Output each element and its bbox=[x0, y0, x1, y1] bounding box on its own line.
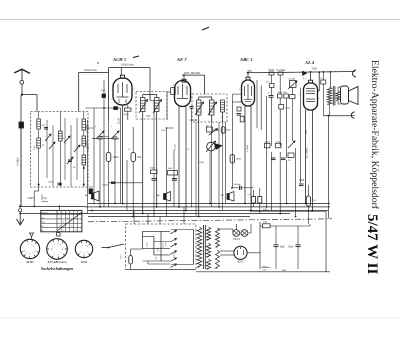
wire bbox=[218, 122, 220, 207]
svg-text:2kΩ: 2kΩ bbox=[263, 221, 267, 224]
variable capacitor gang 2 bbox=[111, 131, 119, 139]
resistor AF7 grid left bbox=[171, 88, 176, 95]
wire antenna down bbox=[21, 84, 23, 94]
wire ABC1 pins down bbox=[244, 106, 246, 204]
potentiometer 0,1M upper bbox=[290, 81, 297, 88]
svg-text:100pF: 100pF bbox=[102, 184, 109, 187]
tube ABC1 bbox=[242, 80, 255, 106]
scan artifact line bottom bbox=[0, 317, 400, 319]
tube AF7 grid cap bbox=[182, 79, 186, 82]
resistor ACH1 cathode bbox=[125, 108, 132, 111]
output transformer core bbox=[332, 86, 334, 106]
svg-text:5000: 5000 bbox=[88, 186, 94, 189]
switch arrow above pot bbox=[209, 129, 218, 136]
trimmer arrow T2a bbox=[195, 102, 204, 115]
transformer secondary winding 5 bbox=[216, 250, 220, 268]
svg-text:ACH1: ACH1 bbox=[25, 260, 34, 264]
wire trimmer base line bbox=[92, 138, 119, 140]
svg-text:0,1μF: 0,1μF bbox=[118, 117, 121, 124]
svg-text:50kΩ: 50kΩ bbox=[265, 141, 270, 143]
resistor coupling b bbox=[278, 72, 283, 75]
selector arrows bbox=[170, 230, 176, 234]
socket marker square bbox=[57, 233, 61, 237]
potentiometer tone bbox=[288, 141, 295, 148]
wire to tuning box bbox=[22, 94, 37, 96]
transformer secondary winding 3 bbox=[206, 259, 210, 269]
svg-text:Elektro-Apparate-Fabrik, Köppe: Elektro-Apparate-Fabrik, Köppelsdorf bbox=[369, 60, 380, 210]
wire right edge power bbox=[325, 212, 327, 272]
capacitor tuning a bbox=[44, 127, 48, 129]
svg-text:50kΩ: 50kΩ bbox=[276, 141, 281, 143]
svg-text:AB: AB bbox=[89, 197, 93, 200]
svg-text:100Ω blau: 100Ω blau bbox=[121, 63, 134, 67]
potentiometer volume bbox=[207, 142, 216, 151]
wire AF7 pins down bbox=[178, 107, 180, 208]
wire tuning verticals bbox=[38, 112, 40, 120]
resistor 1M bbox=[106, 153, 111, 162]
switch contact d bbox=[67, 157, 73, 164]
tube ABC1 electrodes bbox=[244, 86, 246, 96]
svg-text:40Ω: 40Ω bbox=[168, 167, 172, 170]
wire bus 3 bbox=[19, 205, 85, 207]
svg-text:1MΩ: 1MΩ bbox=[236, 158, 241, 161]
transformer core bbox=[203, 225, 205, 269]
svg-text:ABC 1: ABC 1 bbox=[239, 57, 253, 62]
capacitor right stack bbox=[172, 178, 177, 180]
wire HT rail bbox=[250, 211, 326, 213]
tube AL4 grid cap bbox=[309, 80, 313, 83]
wire T2 down bbox=[198, 115, 200, 217]
svg-text:180V: 180V bbox=[282, 269, 288, 272]
stray dot bbox=[97, 62, 98, 63]
transformer secondary winding 2 bbox=[206, 243, 210, 257]
wire selector to primary bbox=[193, 230, 195, 265]
resistor upper a bbox=[270, 84, 275, 88]
capacitor tuning b bbox=[68, 159, 72, 161]
tube AF7 bbox=[175, 81, 191, 107]
svg-text:MW 468 kHz: MW 468 kHz bbox=[184, 71, 201, 75]
ground arrow bbox=[19, 205, 21, 207]
resistor feed b bbox=[258, 197, 262, 204]
resistor 1M coupling bbox=[230, 155, 235, 164]
capacitor below bbox=[152, 178, 157, 180]
svg-text:AZ11: AZ11 bbox=[236, 259, 244, 263]
capacitor 5000pF out bbox=[299, 183, 304, 185]
resistor 500 bbox=[279, 105, 284, 110]
capacitor 5000pF det bbox=[232, 187, 239, 189]
svg-text:110V: 110V bbox=[166, 242, 168, 247]
capacitor 30uF right bbox=[297, 226, 299, 244]
capacitor 100pF bbox=[111, 181, 116, 183]
resistor right stack bbox=[168, 171, 178, 176]
coil T1b bbox=[155, 98, 160, 112]
svg-text:100Ω blau: 100Ω blau bbox=[84, 68, 97, 72]
tube AF7 electrodes bbox=[177, 86, 179, 95]
svg-text:5000·5000: 5000·5000 bbox=[278, 92, 288, 94]
output transformer secondary winding bbox=[336, 91, 340, 100]
wire lamps bbox=[218, 228, 233, 230]
wire T1 top link bbox=[143, 94, 157, 96]
coil L2 bbox=[37, 138, 41, 148]
capacitor 25pF anode bbox=[321, 80, 326, 84]
capacitor electrolytic 3 bbox=[227, 194, 229, 200]
resistor row b3 bbox=[290, 95, 296, 99]
svg-text:5000: 5000 bbox=[299, 179, 305, 182]
svg-text:10μF: 10μF bbox=[101, 89, 107, 92]
transformer secondary winding 1 bbox=[206, 227, 210, 240]
coil T2a bbox=[197, 100, 202, 115]
socket AZ11 bbox=[75, 240, 92, 257]
svg-text:5000: 5000 bbox=[312, 68, 318, 71]
tube ACH1 grid cap bbox=[121, 75, 125, 78]
svg-text:ZF: ZF bbox=[206, 125, 209, 128]
wire ABC1 top bbox=[247, 73, 249, 77]
wire gang down bbox=[99, 139, 101, 207]
power supply dashed box bbox=[126, 224, 197, 269]
trimmer arrow T2b bbox=[208, 102, 217, 115]
wire ABC1 diode line bbox=[231, 102, 233, 188]
antenna bbox=[14, 69, 30, 73]
wire cathode line ACH1 bbox=[86, 107, 121, 109]
wire ACH1 cathode down bbox=[122, 105, 124, 204]
svg-text:Ü4104: Ü4104 bbox=[233, 238, 241, 241]
svg-text:2: 2 bbox=[59, 217, 60, 219]
terminal output lower bbox=[351, 112, 354, 118]
wire AL4 anode to transformer bbox=[318, 90, 320, 92]
wire bus 5 bbox=[19, 213, 290, 215]
voltage selector ladder bbox=[142, 231, 144, 248]
wire field verticals left-mid bbox=[87, 120, 89, 214]
terminal output top bbox=[353, 70, 357, 77]
resistor HT 2k bbox=[260, 225, 263, 227]
coil L5 bbox=[59, 131, 63, 141]
switch contact b bbox=[49, 142, 55, 149]
resistor row b2 bbox=[284, 94, 289, 98]
capacitor 50pF bbox=[271, 157, 276, 159]
resistor 1M bias bbox=[221, 127, 225, 134]
coil L6 bbox=[82, 155, 86, 165]
svg-text:0,1MΩ: 0,1MΩ bbox=[289, 79, 296, 81]
switch contact a bbox=[45, 134, 51, 141]
wire bus 4 bbox=[88, 210, 328, 212]
socket ACH1 bbox=[20, 239, 39, 258]
resistor coupling a bbox=[269, 72, 274, 75]
resistor 2k a bbox=[265, 143, 271, 148]
svg-text:50kΩ: 50kΩ bbox=[199, 162, 204, 164]
svg-text:Sockelschaltungen: Sockelschaltungen bbox=[41, 266, 74, 271]
tuning unit dashed box bbox=[31, 112, 89, 188]
svg-text:7417: 7417 bbox=[262, 269, 268, 272]
svg-text:Röhre: Röhre bbox=[42, 212, 49, 215]
capacitor electrolytic 1 bbox=[92, 193, 94, 199]
resistor 50k lower bbox=[151, 170, 158, 174]
resistor 50k bbox=[207, 127, 213, 132]
svg-text:16μF: 16μF bbox=[280, 246, 286, 249]
svg-text:200Ω: 200Ω bbox=[123, 113, 129, 116]
IF transformer T1 dashed box bbox=[136, 92, 167, 120]
socket AF7 ABC1 AL4 bbox=[47, 239, 68, 260]
svg-text:1MΩ: 1MΩ bbox=[113, 156, 119, 159]
node dots on bus bbox=[122, 203, 124, 205]
speaker cone bbox=[349, 87, 359, 105]
svg-text:5/47 W II: 5/47 W II bbox=[364, 214, 380, 274]
svg-text:150V: 150V bbox=[158, 247, 160, 252]
wire bus 1 bbox=[88, 203, 330, 205]
tube AL4 electrodes bbox=[306, 88, 315, 90]
switch mains bbox=[102, 247, 109, 249]
tube ACH1 bbox=[113, 78, 132, 105]
tube AL4 bbox=[304, 83, 318, 110]
trimmer arrow T1a bbox=[139, 100, 148, 114]
tube ABC1 grid cap bbox=[246, 77, 250, 80]
antenna lead-in circle bbox=[20, 80, 24, 84]
coil T1a bbox=[141, 98, 146, 112]
svg-text:220V: 220V bbox=[174, 253, 176, 258]
voltage table bbox=[41, 210, 82, 231]
wire T1 coils down bbox=[142, 112, 144, 214]
transformer secondary winding 4 bbox=[216, 228, 220, 247]
svg-text:GW: GW bbox=[146, 115, 151, 118]
svg-text:9: 9 bbox=[67, 217, 68, 219]
wire antenna lower bbox=[20, 95, 22, 122]
svg-text:AL 4: AL 4 bbox=[304, 60, 315, 65]
transformer primary winding bbox=[197, 227, 202, 267]
stray mark top center bbox=[202, 27, 209, 30]
fuse bbox=[129, 256, 133, 265]
wire bbox=[132, 127, 134, 153]
IF transformer T2 dashed box bbox=[192, 94, 227, 122]
svg-text:AF 7: AF 7 bbox=[176, 57, 187, 62]
svg-text:0,1A: 0,1A bbox=[120, 254, 123, 259]
svg-text:4MΩ: 4MΩ bbox=[226, 130, 231, 132]
coil L4 bbox=[82, 136, 86, 146]
svg-text:5x1: 5x1 bbox=[43, 196, 48, 200]
node dots tuning bbox=[38, 184, 40, 186]
node antenna junction bbox=[21, 94, 23, 96]
wire AF7 grid top bbox=[183, 75, 185, 79]
speaker magnet body bbox=[341, 86, 349, 104]
wire AF7 cap down bbox=[191, 108, 193, 207]
diode detector mark bbox=[215, 144, 223, 150]
tube ACH1 electrodes bbox=[117, 84, 119, 93]
wire AL4 pins down bbox=[305, 110, 307, 204]
rectifier tube AZ11 bbox=[234, 246, 247, 259]
wire long verticals right-mid bbox=[256, 80, 258, 128]
svg-text:2: 2 bbox=[239, 89, 240, 91]
svg-text:5-30pF: 5-30pF bbox=[16, 157, 20, 166]
wire top bus right bbox=[247, 72, 356, 73]
resistor row b1 bbox=[278, 94, 283, 98]
wire links bbox=[213, 129, 219, 131]
coil T2c bbox=[221, 100, 225, 112]
diode mark before AL4 bbox=[303, 71, 307, 76]
switch contact c bbox=[64, 136, 70, 143]
wire AZ11 anode HT bbox=[247, 252, 260, 254]
svg-text:5000pF: 5000pF bbox=[234, 183, 242, 186]
capacitor ABC1 cathode bbox=[237, 107, 241, 111]
svg-text:2kΩ: 2kΩ bbox=[263, 208, 267, 211]
svg-text:2: 2 bbox=[75, 217, 76, 219]
capacitor block ACH1 left bbox=[102, 94, 106, 98]
svg-text:0,1μF: 0,1μF bbox=[174, 144, 177, 150]
resistor 2k b bbox=[276, 143, 282, 148]
socket marker triangle bbox=[30, 233, 34, 237]
capacitor electrolytic 2 bbox=[164, 194, 166, 200]
resistor 750 feed bbox=[306, 196, 310, 206]
output transformer primary winding bbox=[327, 87, 332, 104]
capacitor 27pF bbox=[269, 95, 274, 97]
capacitor tuning c bbox=[58, 182, 63, 184]
resistor 0,1M bbox=[288, 153, 294, 158]
wire AL4 grid top bbox=[310, 72, 312, 80]
wire HT top to bus bbox=[276, 225, 310, 227]
wire detector line bbox=[109, 182, 143, 184]
svg-text:AF7,ABC1,AL4: AF7,ABC1,AL4 bbox=[46, 260, 67, 264]
wire right vertical HT bbox=[328, 116, 330, 219]
resistor 50k mid bbox=[131, 153, 136, 162]
capacitor AF7 bottom bbox=[190, 106, 194, 108]
svg-text:1: 1 bbox=[63, 230, 64, 232]
resistor ABC1 lower bbox=[240, 116, 244, 122]
svg-text:ACH 1: ACH 1 bbox=[112, 57, 126, 62]
wire bus 6 bbox=[88, 216, 250, 218]
wire lower terminal bbox=[324, 115, 355, 117]
svg-text:500Ω: 500Ω bbox=[285, 108, 290, 110]
wire pot down bbox=[209, 152, 211, 204]
chassis line dash-dot bbox=[88, 219, 332, 222]
svg-text:0,5MΩ: 0,5MΩ bbox=[246, 145, 249, 152]
svg-text:0,1: 0,1 bbox=[187, 149, 190, 151]
capacitor block left bbox=[89, 189, 93, 194]
svg-text:Us: Us bbox=[42, 225, 45, 228]
switch contact e bbox=[74, 145, 80, 152]
svg-text:30μF: 30μF bbox=[288, 246, 294, 249]
wire IF link AF7 bbox=[182, 74, 205, 76]
svg-text:7x10: 7x10 bbox=[262, 265, 268, 268]
wire bbox=[20, 128, 22, 206]
svg-text:2: 2 bbox=[319, 98, 320, 100]
wire AZ11 heater bbox=[220, 250, 234, 252]
resistor feed a bbox=[251, 197, 255, 204]
svg-text:50k: 50k bbox=[137, 156, 142, 159]
wire feeds up from power box bbox=[133, 211, 135, 225]
capacitor cathode blob bbox=[114, 107, 118, 110]
coil L3 bbox=[82, 119, 86, 130]
svg-text:Kl. 30mA: Kl. 30mA bbox=[306, 147, 309, 158]
svg-text:5mH: 5mH bbox=[28, 196, 35, 200]
wire bbox=[108, 120, 110, 153]
wire box B pins down bbox=[211, 122, 213, 207]
svg-text:125V: 125V bbox=[147, 242, 149, 247]
coil T2b bbox=[210, 100, 215, 115]
scan artifact line top bbox=[0, 19, 400, 21]
wire table feed bbox=[58, 206, 60, 210]
wire bus 2 bbox=[85, 206, 330, 208]
capacitor antenna series (blob) bbox=[19, 122, 24, 128]
svg-text:0,1: 0,1 bbox=[128, 149, 131, 151]
dial lamps bbox=[233, 230, 240, 237]
svg-text:AZ11: AZ11 bbox=[80, 260, 88, 264]
wire T2 top link bbox=[199, 96, 212, 98]
variable capacitor gang 1 bbox=[96, 131, 104, 139]
coil L1 bbox=[37, 119, 41, 129]
wire antenna coupling bbox=[79, 71, 109, 73]
capacitor 16uF bbox=[275, 226, 277, 244]
wire power bottom bbox=[196, 271, 330, 273]
trimmer arrow T1b bbox=[153, 100, 162, 114]
table diagonal strike bbox=[58, 213, 82, 231]
